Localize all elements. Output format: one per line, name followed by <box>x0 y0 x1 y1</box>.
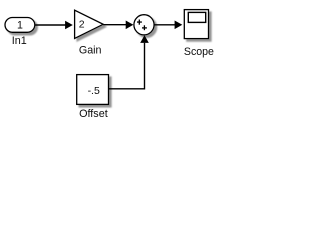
inport block In1 <box>5 18 35 33</box>
scope screen <box>188 12 205 22</box>
arrowhead into Scope <box>175 21 183 30</box>
svg-text:In1: In1 <box>12 35 27 47</box>
gain block Gain <box>75 10 104 38</box>
plus sign (left input) <box>137 20 142 25</box>
wire Offset to Sum (elbow) <box>109 43 145 89</box>
svg-text:Scope: Scope <box>184 46 214 58</box>
svg-text:2: 2 <box>79 19 85 31</box>
svg-text:Gain: Gain <box>79 44 102 56</box>
svg-text:Offset: Offset <box>79 108 108 120</box>
svg-text:1: 1 <box>17 20 23 32</box>
sum block <box>134 15 154 35</box>
svg-text:-.5: -.5 <box>88 85 100 97</box>
constant block Offset <box>77 75 109 105</box>
arrowhead into Sum bottom <box>140 35 149 43</box>
wire In1 to Gain <box>35 24 66 26</box>
plus sign (bottom input) <box>142 25 147 30</box>
wire Sum to Scope <box>154 24 175 26</box>
arrowhead into Gain <box>65 21 73 30</box>
arrowhead into Sum left <box>126 21 134 30</box>
scope block <box>184 10 208 39</box>
wire Gain to Sum <box>103 24 126 26</box>
